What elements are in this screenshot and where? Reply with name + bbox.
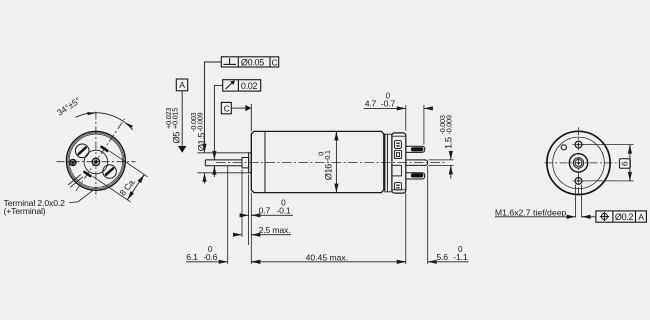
dimension 6 boxed text (619, 159, 630, 168)
terminal slot marks lower-left (68, 175, 83, 188)
left view diagonal centerline (76, 118, 125, 191)
svg-text:6: 6 (619, 161, 629, 166)
perpendicularity frame leader to diameter-5 dimension line (205, 62, 222, 151)
svg-text:Ø0.2: Ø0.2 (615, 212, 634, 222)
cap terminal base upper (394, 141, 401, 149)
svg-text:Ø0.05: Ø0.05 (241, 57, 264, 67)
datum A symbol (176, 79, 187, 153)
small pilot hole upper-left (561, 145, 566, 150)
left view brush bridge circle (84, 150, 108, 174)
motor front plate line (264, 131, 266, 192)
right view housing outer circle (547, 131, 610, 194)
svg-text:6.1: 6.1 (186, 252, 198, 262)
svg-text:Ø1.5: Ø1.5 (196, 133, 206, 152)
left view housing inner rim circles (68, 133, 124, 189)
svg-text:5.6: 5.6 (436, 252, 448, 262)
diameter 5 extension lines (198, 153, 249, 173)
svg-text:C: C (272, 57, 278, 67)
terminal upper (side view) (406, 146, 425, 152)
svg-text:34°±5°: 34°±5° (55, 95, 82, 118)
right view vertical centerline (578, 127, 580, 196)
right view center dot (577, 162, 579, 164)
left view housing outer circle (67, 131, 126, 190)
svg-text:Ø16: Ø16 (324, 164, 334, 180)
svg-text:+0.015: +0.015 (171, 108, 180, 129)
svg-text:0: 0 (281, 199, 286, 208)
position tolerance frame (596, 211, 647, 222)
rear brush cap rim lines (392, 136, 405, 190)
svg-text:0: 0 (458, 245, 463, 254)
dimension 6.1 line and arrows (186, 261, 259, 263)
dimension 40.45 max line (251, 261, 405, 263)
motor body outline (251, 131, 383, 192)
cap window (394, 150, 401, 158)
M1.6 leader line and arrows (495, 216, 596, 218)
right view horizontal centerline (545, 162, 617, 164)
rear brush cap (392, 133, 406, 193)
side view horizontal centerline (216, 162, 447, 164)
left view shaft center dot (94, 160, 98, 164)
svg-text:40.45 max.: 40.45 max. (306, 252, 349, 262)
diameter 16 dimension line (335, 131, 337, 192)
svg-text:A: A (179, 80, 185, 90)
svg-text:Ø5: Ø5 (171, 132, 181, 144)
angle arc arrowhead at vertical centerline (87, 112, 96, 115)
svg-text:M1.6x2.7 tief/deep: M1.6x2.7 tief/deep (495, 208, 567, 218)
left view horizontal centerline (57, 161, 136, 163)
cap lower block (392, 165, 402, 176)
dimension 2.5 max dimension line and arrows (235, 234, 291, 236)
right view housing inner circle (553, 137, 605, 189)
cap terminal base lower (394, 183, 401, 190)
left view vertical centerline (95, 112, 97, 198)
front boss diameter 5 (249, 153, 252, 173)
svg-text:0.02: 0.02 (241, 81, 258, 91)
rear shaft stub (406, 160, 428, 166)
svg-text:(+Terminal): (+Terminal) (4, 206, 46, 216)
terminal tab upper (end view) (100, 145, 109, 152)
angle dimension arc 34 deg (76, 113, 133, 130)
angle arc arrowhead at diagonal (125, 123, 133, 129)
runout frame leader to diameter-1.5 dimension line (214, 85, 222, 157)
svg-text:0: 0 (208, 245, 213, 254)
front bearing collar (242, 158, 249, 168)
dimension 2.5 max extension line (241, 170, 243, 238)
dimension 6 extension lines (582, 145, 633, 181)
diameter 5 dimension arrows (204, 144, 206, 184)
dimension 8 Ca. extension line from lower terminal (93, 176, 131, 202)
front shaft (205, 160, 242, 166)
svg-text:A: A (638, 212, 644, 222)
diameter 1.5 dimension text (189, 112, 206, 151)
left view shaft center circle (92, 158, 99, 165)
dimension 6 dimension line (629, 145, 631, 181)
dimension 5.6 line and arrows (399, 261, 469, 263)
svg-text:-0.1: -0.1 (323, 150, 332, 162)
dimension 4.7 extension lines (406, 105, 424, 145)
dimension 8 Ca. extension line from upper terminal (110, 151, 148, 177)
diameter 16 dimension text (316, 150, 333, 180)
terminal label leader line (69, 190, 94, 203)
svg-text:C: C (224, 103, 230, 113)
svg-text:-0.009: -0.009 (196, 112, 205, 131)
rear shaft 1.5 extension lines (429, 160, 454, 166)
datum C extension line up from front face (250, 104, 252, 131)
svg-text:1.5: 1.5 (443, 137, 453, 149)
dimension 8 Ca. dimension line with arrows (127, 175, 144, 200)
svg-text:8 Ca.: 8 Ca. (117, 176, 137, 197)
bottom extension lines (228, 166, 428, 264)
rear shaft 1.5 dimension arrows (450, 152, 452, 179)
dimension 0.7 dimension line and arrows (241, 214, 293, 216)
left view brush access screw slot upper-left (75, 144, 89, 158)
svg-text:0.7: 0.7 (259, 206, 271, 216)
mounting hole M1.6 top (572, 141, 584, 148)
mounting hole M1.6 bottom (572, 178, 584, 185)
circular runout tolerance frame (223, 80, 261, 91)
diameter 5 dimension text (164, 108, 181, 144)
left view knurled adjustment pinion (70, 159, 76, 165)
right view center bearing circles (569, 154, 587, 172)
svg-text:0: 0 (386, 92, 391, 101)
terminal lower (side view) (406, 173, 425, 179)
M1.6 thread depth extension lines (576, 185, 582, 218)
dimension 4.7 dimension line (364, 107, 432, 109)
rear shaft 1.5 dimension text (438, 115, 454, 149)
svg-text:2.5 max.: 2.5 max. (259, 225, 291, 235)
rear ring section (385, 134, 392, 192)
dimension 0.7 extension line (248, 175, 250, 246)
perpendicularity tolerance frame (221, 57, 278, 68)
datum C symbol (221, 102, 251, 113)
left view brush access screw slot lower-right (103, 165, 117, 179)
diameter 1.5 dimension arrows (213, 151, 215, 177)
terminal tab lower (end view) (83, 170, 92, 177)
svg-text:4.7: 4.7 (365, 99, 377, 109)
svg-text:-0.009: -0.009 (445, 115, 454, 134)
